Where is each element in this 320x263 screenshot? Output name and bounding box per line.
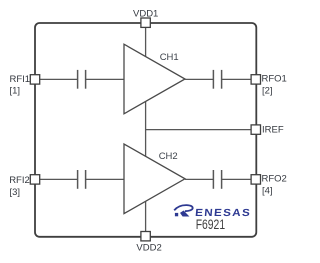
wire IREF branch: [146, 129, 252, 131]
svg-text:VDD2: VDD2: [136, 243, 161, 254]
svg-text:RFI1: RFI1: [10, 74, 31, 85]
wire CH1 output to C2: [185, 78, 213, 80]
capacitor C2 (output CH1): [213, 70, 221, 89]
wire C4 to RFO2: [222, 178, 252, 180]
logo dot: [175, 213, 178, 216]
pin RFO2: [251, 175, 260, 184]
logo ENESAS text: [195, 208, 252, 219]
svg-text:[4]: [4]: [262, 186, 273, 197]
svg-text:[1]: [1]: [10, 86, 21, 97]
wire VDD1 stem to CH1 top: [145, 23, 147, 57]
wire CH2 output to C4: [185, 178, 213, 180]
svg-text:[3]: [3]: [10, 187, 21, 198]
wire C3 to CH2 input: [86, 178, 124, 180]
pin VDD2: [141, 232, 150, 241]
op-amp CH1: [124, 44, 185, 114]
wire RFI2 to C3: [39, 178, 78, 180]
pin RFI1: [30, 75, 39, 84]
wire CH2 bottom to VDD2: [145, 201, 147, 236]
svg-text:IREF: IREF: [262, 125, 284, 136]
wire CH1 bottom to CH2 top (through IREF junction): [145, 101, 147, 156]
wire C2 to RFO1: [222, 78, 252, 80]
wire RFI1 to C1: [39, 78, 78, 80]
svg-text:F6921: F6921: [196, 217, 225, 232]
op-amp CH2: [124, 144, 185, 214]
pin RFO1: [251, 75, 260, 84]
svg-text:VDD1: VDD1: [133, 9, 158, 20]
svg-text:[2]: [2]: [262, 86, 273, 97]
svg-text:RFI2: RFI2: [9, 175, 30, 186]
svg-text:CH1: CH1: [160, 52, 179, 63]
chip outline U1: [35, 23, 256, 237]
svg-text:RFO2: RFO2: [262, 174, 287, 185]
wire C1 to CH1 input: [86, 78, 124, 80]
capacitor C3 (input CH2): [78, 170, 86, 189]
svg-text:RFO1: RFO1: [262, 74, 287, 85]
pin RFI2: [30, 175, 39, 184]
logo R leg: [180, 211, 189, 217]
capacitor C4 (output CH2): [213, 170, 221, 189]
capacitor C1 (input CH1): [78, 70, 86, 89]
svg-text:CH2: CH2: [159, 151, 178, 162]
logo R swoosh and bowl: [174, 205, 193, 211]
Renesas logo: [174, 205, 251, 219]
pin VDD1: [141, 18, 150, 27]
pin IREF: [251, 125, 260, 134]
